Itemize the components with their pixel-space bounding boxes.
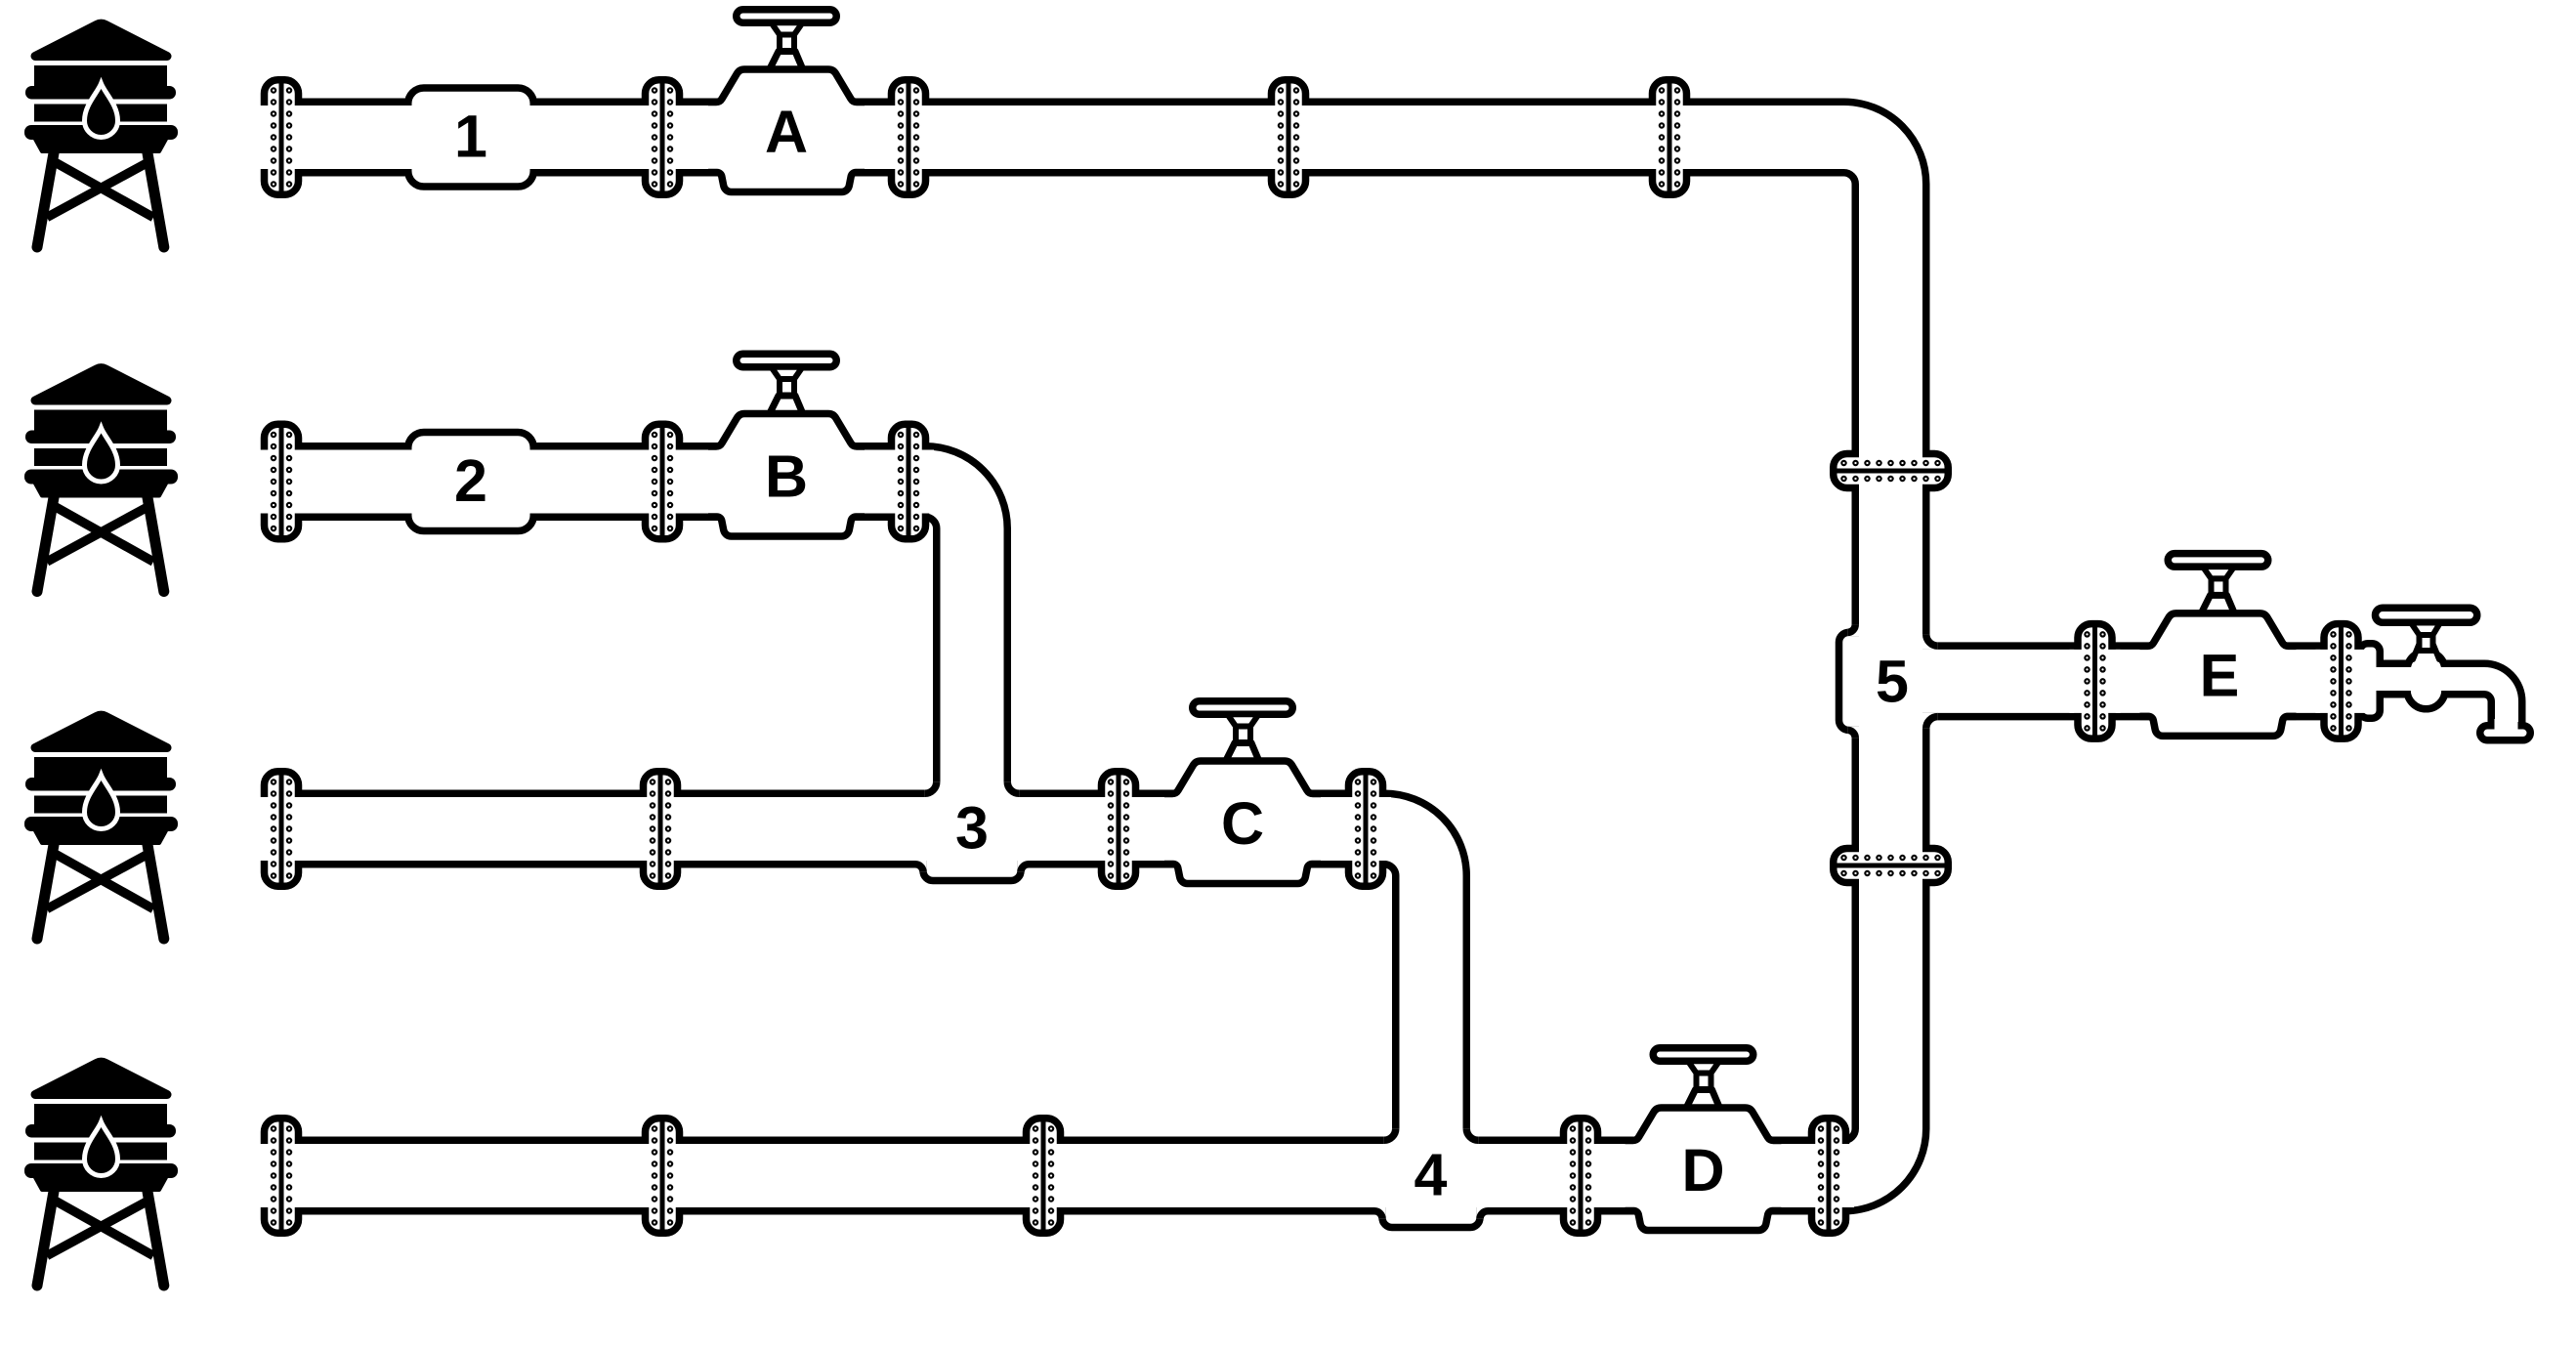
svg-text:C: C (1221, 790, 1264, 857)
svg-text:1: 1 (454, 104, 487, 170)
svg-text:A: A (765, 99, 808, 165)
svg-text:E: E (2200, 642, 2240, 708)
svg-text:2: 2 (454, 447, 487, 514)
svg-text:B: B (765, 443, 808, 510)
svg-text:5: 5 (1876, 648, 1909, 714)
svg-text:D: D (1681, 1137, 1724, 1203)
svg-text:4: 4 (1415, 1142, 1448, 1208)
svg-text:3: 3 (955, 795, 989, 862)
